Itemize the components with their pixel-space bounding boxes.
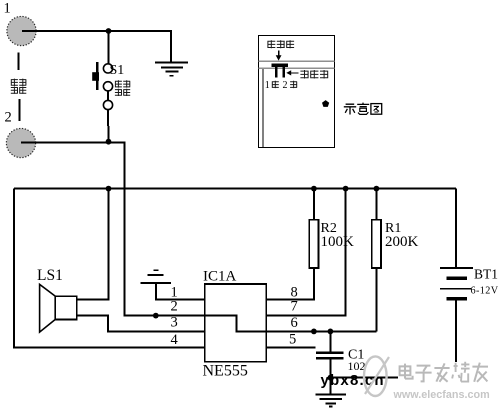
IC U1 NE555 body (205, 284, 267, 362)
svg-text:4: 4 (171, 332, 179, 348)
wire bus to battery (455, 189, 457, 268)
touch contact 1 (7, 16, 36, 45)
label 静触片 (267, 40, 275, 48)
touch contact 2 (6, 128, 35, 157)
internal wire pin2-pin6 (205, 316, 377, 332)
resistor R1 (375, 189, 377, 220)
battery BT1 (440, 267, 473, 269)
leader + label 接动/触点 (18, 53, 20, 70)
left rail to pin4 (14, 189, 205, 348)
svg-text:1: 1 (265, 80, 270, 91)
junction dot switch/contact2 (106, 139, 112, 145)
junction dots pin6 line (311, 329, 317, 335)
svg-text:6-12V: 6-12V (471, 285, 499, 296)
gray slot lines (259, 60, 335, 62)
bus junction dots (106, 186, 112, 192)
down arrow (278, 51, 280, 57)
switch S1 contacts (103, 64, 112, 73)
label 控制/开关 (115, 80, 122, 87)
contact diagram box (259, 36, 335, 148)
ground (top right) (155, 61, 188, 63)
svg-text:IC1A: IC1A (203, 269, 237, 285)
svg-text:200K: 200K (385, 234, 419, 250)
svg-text:100K: 100K (321, 234, 355, 250)
bottom return wire (330, 377, 398, 379)
top bus wire (14, 188, 456, 190)
wire contact1 to ground (22, 31, 171, 62)
box inner left wall (262, 68, 264, 147)
junction dot wire1/switch (106, 28, 112, 34)
svg-text:BT1: BT1 (474, 266, 498, 281)
moving contact symbol (272, 64, 289, 67)
svg-text:1: 1 (4, 1, 11, 17)
junction dot bottom wire (328, 375, 334, 381)
svg-text:www.elecfans.com: www.elecfans.com (393, 389, 490, 401)
ground (pin1) (141, 282, 172, 284)
left arrow + 动触片 (291, 72, 299, 74)
wire battery minus down (455, 299, 457, 362)
switch S1 wire upper (108, 31, 110, 64)
svg-text:2: 2 (5, 110, 12, 126)
speaker LS1 (55, 296, 76, 319)
switch S1 actuator (96, 62, 99, 90)
resistor R2 (313, 189, 315, 220)
svg-text:2: 2 (283, 80, 288, 91)
svg-text:3: 3 (171, 314, 178, 330)
wire pin8 to R2 (266, 268, 314, 299)
ground (C1/battery) (315, 393, 346, 395)
wire contact2 to pin2 (21, 142, 205, 315)
svg-text:S1: S1 (110, 63, 125, 78)
pentagon marker (322, 100, 329, 107)
capacitor C1 (329, 331, 331, 352)
label 示意图 (344, 104, 356, 114)
elecfans logo (364, 356, 387, 396)
wire bus to speaker top (77, 189, 109, 300)
wire speaker bottom to pin3 (77, 316, 205, 332)
svg-text:5: 5 (289, 332, 296, 348)
junction dot on pin2 line (153, 313, 159, 319)
svg-text:LS1: LS1 (37, 267, 63, 284)
svg-text:6: 6 (291, 315, 298, 331)
pin1 wire + ground stem (156, 283, 205, 299)
wire pin5 stub (266, 347, 315, 349)
watermark 电子发烧友 (400, 364, 413, 379)
svg-text:2: 2 (171, 298, 178, 314)
wire pin7 to bus (266, 189, 345, 316)
svg-text:NE555: NE555 (203, 363, 248, 380)
svg-text:7: 7 (291, 298, 298, 314)
